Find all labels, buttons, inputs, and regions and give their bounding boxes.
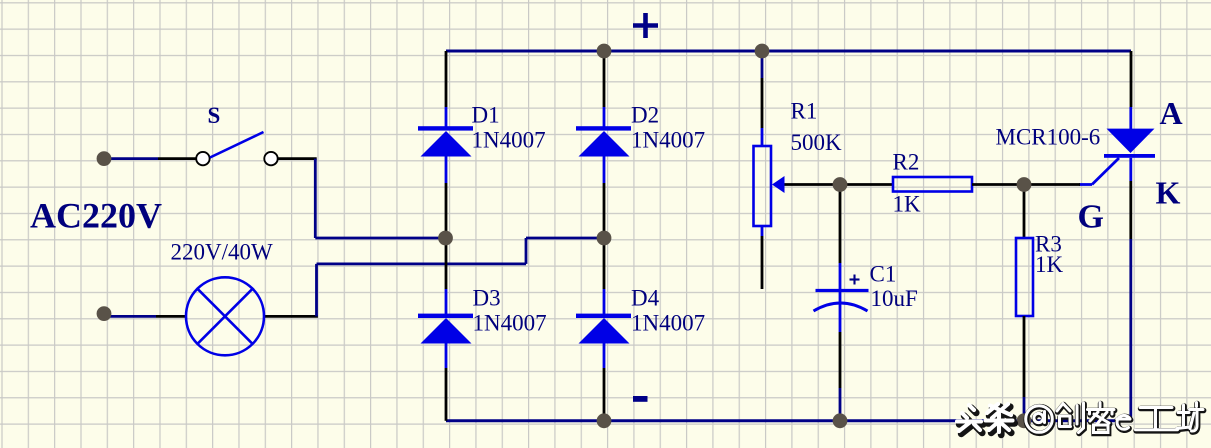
svg-text:500K: 500K [791, 130, 843, 155]
junction at R3 bottom rail [1017, 413, 1032, 428]
terminal dot: AC line bottom [97, 306, 112, 321]
resistor R2 1K [893, 177, 972, 192]
wire: SCR anode column from top rail [1130, 51, 1133, 107]
svg-text:220V/40W: 220V/40W [171, 240, 274, 265]
terminal dot: AC line top [97, 151, 112, 166]
svg-text:10uF: 10uF [871, 286, 918, 311]
C1 plus polarity mark [850, 275, 860, 285]
wire: R1 wiper to node [785, 183, 841, 186]
wire: D2 to middle node [603, 183, 606, 238]
wire: to bridge node at D1/D3 column [315, 237, 446, 240]
wire: D3 to bottom rail [445, 368, 448, 421]
wire: D2 column from top rail [603, 51, 606, 107]
wire: cap node down to C1 [839, 185, 842, 264]
wire: middle node down to D4 [603, 238, 606, 289]
svg-text:R1: R1 [791, 99, 818, 124]
wire: AC feed to switch [105, 157, 158, 160]
junction at D4 bottom rail [597, 413, 612, 428]
wire: lamp to corner [263, 315, 318, 318]
wire: SCR cathode to bottom rail [1129, 239, 1132, 421]
wire: jog up at x=526 [525, 238, 528, 264]
diode D2 (1N4007) [576, 107, 631, 183]
junction at bridge left mid [438, 231, 453, 246]
svg-text:S: S [208, 103, 221, 128]
switch S: contact circle left [196, 152, 209, 165]
wire: middle node down to D3 [445, 238, 448, 289]
junction at bridge right mid [597, 231, 612, 246]
wire: to bridge node at D2/D4 column [526, 237, 604, 240]
svg-text:D3: D3 [473, 286, 501, 311]
junction at gate/R3 node [1017, 177, 1032, 192]
wire: C1 bottom stub to rail [839, 388, 842, 421]
svg-text:C1: C1 [870, 262, 897, 287]
svg-text:D4: D4 [631, 286, 660, 311]
wire: lamp net horizontal run [317, 262, 527, 265]
wire: switch corner down to bridge left input [314, 159, 317, 238]
diode D1 (1N4007) [418, 107, 473, 183]
wire: AC feed to lamp [105, 315, 156, 318]
svg-text:1K: 1K [893, 192, 922, 217]
thyristor U1 MCR100-6 [1079, 107, 1155, 185]
wire: D1 to middle node [445, 183, 448, 238]
svg-text:1N4007: 1N4007 [631, 128, 705, 153]
wire: gate node to SCR gate [1024, 183, 1080, 186]
switch S: blade [210, 132, 264, 158]
wire: R3 to bottom rail [1023, 316, 1026, 397]
diode D3 (1N4007) [418, 289, 473, 368]
svg-text:1K: 1K [1035, 252, 1064, 277]
junction at D2 top rail [597, 44, 612, 59]
node + (plus label) [633, 13, 658, 38]
wire: lamp corner up [315, 264, 318, 317]
wire: bottom - rail [446, 419, 1131, 422]
svg-text:G: G [1078, 199, 1104, 236]
wire: top + rail [446, 50, 1131, 53]
watermark 头条@创客e工坊 (drawn as outlined strokes) [957, 403, 1204, 435]
potentiometer R1 500K [754, 128, 785, 236]
svg-text:AC220V: AC220V [30, 196, 162, 236]
svg-text:K: K [1156, 175, 1181, 211]
wire: D4 to bottom rail [603, 368, 606, 421]
junction at R1 top rail [755, 44, 770, 59]
diode D4 (1N4007) [576, 289, 631, 368]
wire: gate node down to R3 [1023, 185, 1026, 239]
junction at C1 bottom rail [833, 413, 848, 428]
svg-text:D1: D1 [472, 103, 500, 128]
wire: C1 to bottom rail [839, 332, 842, 388]
resistor R3 1K [1016, 238, 1033, 316]
svg-text:1N4007: 1N4007 [473, 311, 547, 336]
switch S: contact circle right [264, 152, 277, 165]
wire: node to R2 [840, 183, 893, 186]
wire: R2 to gate node [972, 183, 1024, 186]
node - (minus label) [633, 396, 648, 402]
svg-text:A: A [1160, 95, 1183, 131]
svg-text:1N4007: 1N4007 [631, 311, 705, 336]
junction at wiper/C1 node [833, 177, 848, 192]
capacitor C1 10uF (polarized) [814, 263, 869, 332]
svg-text:1N4007: 1N4007 [472, 128, 546, 153]
svg-text:R2: R2 [893, 150, 920, 175]
lamp 220V/40W: circle with X [186, 277, 264, 355]
wire: SCR cathode lead [1129, 181, 1132, 239]
wire: switch to corner [278, 157, 317, 160]
wire: R1 column from top rail [761, 51, 764, 78]
wire: D1 column from top rail [445, 51, 448, 107]
svg-text:D2: D2 [631, 103, 659, 128]
wire: R1 bottom stub (unconnected) [761, 236, 764, 289]
svg-text:MCR100-6: MCR100-6 [996, 125, 1101, 150]
